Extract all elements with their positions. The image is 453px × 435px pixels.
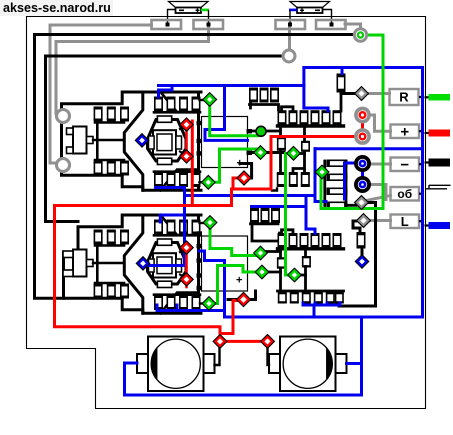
IC board A1 bottom pins [277,172,286,187]
ob terminal node [357,198,366,207]
red wire: left drop [55,206,221,339]
legend green wire [425,96,430,98]
green test point A2 mid [290,271,299,280]
blue wire: H2 jog to bottom riser [199,251,225,317]
component row top-left [94,107,103,122]
blue wire: battery loop [125,317,362,395]
connector label box minus [391,158,420,172]
legend open (white) wire [429,184,451,186]
green test point M1 top [205,95,214,104]
blue wire: battery right tab link [347,362,362,365]
motor (hexagon) [148,243,187,285]
black wire: node C right stub [240,164,252,179]
black wire: ob node into A2 edge [367,203,376,232]
wire to R6 top [340,94,343,111]
L terminal node [359,216,368,225]
red wire: M1 to junction riser [191,121,194,206]
blue wire: y206.5 to A2 trio [252,205,307,208]
relay/solenoid [73,127,87,154]
resistor below L node [357,232,366,249]
capacitor/head box H1 [202,117,248,168]
A1 pin link black y152.5 [248,151,281,154]
black wire: node A loop to M2 bottom (outer) [35,35,355,299]
red wire: + node to A1 riser [271,137,356,190]
capacitor/head box H2 [202,236,248,291]
svg-text:L: L [401,214,409,229]
wire crossing patch green x321 [320,196,323,208]
R terminal node [357,89,366,98]
resistor to R node [337,74,346,93]
minus terminal node lower [356,178,369,191]
wire SP2 plus lead (blue stub) [289,9,297,12]
green wire: H2 crossing [218,266,259,273]
IC board A1 pin bridge [282,107,294,111]
blue wire: M2 bottom bus [157,305,225,311]
mechanism right edge with pins [197,95,200,188]
black wire: resistor to R node [341,93,356,94]
gray wire: SP2 left terminal to node B [288,28,291,50]
green wire: M1 node to H1 crossing [210,104,260,136]
node A (green/black ring by SP2) [354,29,366,41]
battery cell [280,337,336,392]
legend black wire [425,161,430,163]
black wire: M1 bottom node stub [200,181,204,183]
gray wire: L node to L box [369,219,391,222]
red wire: M2 diamonds vertical [185,250,188,277]
guide roller circle top [57,110,70,123]
blue wire: M2 blue diamond feed [147,215,185,266]
red wire: battery link [224,340,264,343]
black wire: node B loop to M2 top (inner) [46,56,284,222]
IC board A2 mid column [304,249,307,257]
blue wire: M1 bottom to junction [156,188,185,223]
gray wire: R node to R box [367,92,390,95]
blue wire: top bus from speaker area [304,68,423,318]
IC board A1 left column [279,126,282,137]
IC board A2 lower bus [278,247,344,250]
black wire: node D stubs [228,298,238,301]
motor mount pentagon [124,92,143,190]
red wire: long left bus [55,189,272,206]
green wire: H1 lower crossing [213,149,220,182]
black wire: M1 top node stub [200,99,206,101]
speaker SP2 [290,2,330,8]
wire crossing patch green x383 [382,142,385,153]
red node C [239,173,249,183]
red wire: M1 diamonds vertical [185,127,188,154]
gray wire: ob node to ob box [367,196,391,201]
green wire: node A to right riser [321,35,383,209]
gray wire: SP1 left terminal to roller 2 [50,25,152,163]
green test point A1 mid [289,149,298,158]
black wire: L node to A2 resistor [353,221,360,232]
green test point A2 left2 [258,268,267,277]
green test point A1 filter [318,168,327,177]
A1 green node stub [297,152,305,155]
component row bottom-left [94,284,103,299]
relay/solenoid [73,250,87,277]
wire SP1 minus lead [168,10,176,25]
terminal strip T4 (SP2 right) [316,20,346,29]
connector label box R [390,89,419,105]
label box ticks to blue rail [419,96,422,98]
red test point M2 upper [182,243,191,252]
blue wire: drop to A2 pin [306,196,315,234]
green test point A2 left1 [256,249,265,258]
filter stack right rail [346,161,356,205]
IC board A2 left column [279,249,282,258]
black wire: H1 right pin to green node [249,151,284,154]
blue wire: A2 pin bus riser [303,303,340,305]
minus terminal node upper [356,157,369,170]
filter stack (ob) [327,160,348,168]
component row bottom-right [154,172,163,187]
blue wire: top bus left arm [302,68,305,86]
blue node M2 motor [139,259,148,268]
A2 pin link black y272 [267,271,281,274]
IC board A1 mid column [303,126,306,141]
terminal strip T1 (SP1 left) [152,20,182,29]
blue wire: bottom long bus y317 [225,316,423,319]
wire SP2 minus lead [323,10,332,25]
green test point A1 left [256,148,265,157]
black link to red riser [272,189,277,191]
green solid node A1 input [256,126,266,136]
connector label box ob [391,187,420,201]
svg-text:+: + [236,275,242,287]
+ terminal node upper [356,108,369,121]
blue wire: horizontal distribution y85.5 [159,84,304,87]
A2 pin link black y251.5 [264,250,281,253]
IC board A1 lower bus [278,124,344,127]
svg-text:+: + [400,124,409,141]
blue wire: riser H1 jog [205,86,248,141]
IC board A2 right outline [339,230,376,306]
red test point M1 upper [182,120,191,129]
roller circles redrawn [57,110,70,123]
IC board A2 top pin row [278,233,287,248]
svg-text:akses-se.narod.ru: akses-se.narod.ru [3,1,111,15]
blue wire: minus nodes vertical [361,166,364,182]
blue wire: riser x315 from bus [314,149,317,202]
node B (gray ring) [283,50,295,62]
A2 pin link black y275 [298,274,306,277]
battery terminal node 1 [215,337,224,346]
blue wire: y201.5 to filter resistor [315,200,326,203]
component row bottom-right [154,295,163,310]
gray wire: SP1 right terminal to roller 1 [56,28,209,116]
title label akses-se.narod.ru [0,0,113,16]
red test point M1 lower [182,152,191,161]
gray wire: SP2 right terminal to node A [345,24,361,29]
mechanism outline [78,215,201,250]
IC board A2 bottom bus [278,290,344,293]
svg-text:R: R [399,90,409,105]
IC board A2 pin bridge [282,230,294,234]
black wire: M2 green node stub [200,302,205,304]
component row top-right [154,97,163,112]
motor spokes [180,249,187,253]
green test point M1 bottom [204,178,213,187]
motor spokes [180,126,187,130]
IC board A2 bottom pins [278,292,287,304]
component row bottom-left [94,161,103,176]
red wire: junction up to node C [233,178,239,189]
wire SP1 plus lead (green stub) [201,9,209,12]
black wire: A2 resistor to blue node [361,248,364,257]
legend red wire [425,132,430,134]
blue wire: drop to A1 resistor [341,68,344,74]
gray wire: minus node to minus box [367,163,391,166]
green test point M2 bottom [205,299,214,308]
legend blue wire [425,224,430,226]
component row top-left [94,230,103,245]
red wire: node D to battery 1 [220,301,239,334]
svg-text:−: − [400,157,409,174]
speaker SP1 [169,2,209,8]
terminal strip T3 (SP2 left) [276,20,306,29]
blue wire: long bus y148.7 [315,147,423,150]
blue wire: y195.5 bus [185,194,316,197]
terminal strip T2 (SP1 right) [194,20,224,29]
black wire: battery node 1 lead [215,346,220,365]
green wire: M2 lower node riser [214,266,218,304]
blue wire: minus node to filter rail [345,163,358,199]
battery cell [148,337,204,392]
IC board A2 top pin trio [250,208,259,223]
board outline border [27,17,426,409]
black wire: battery node 2 lead [268,346,270,365]
connector label box + [391,125,420,139]
gray wire: + node to + box [367,115,391,131]
motor (hexagon) [148,120,187,162]
IC board A1 top pin row [278,110,287,125]
blue node M1 motor [138,136,147,145]
gray wire: minus lower node jog [368,185,387,200]
green wire: M2 top node path [210,227,256,256]
green wire: A1 node to riser down [286,154,291,276]
red test point M2 lower [182,275,191,284]
IC board A1 top pin trio [249,88,258,103]
A1 pin link black y131 [248,130,281,133]
green test point M2 top [206,218,215,227]
battery terminal node 2 [263,337,272,346]
blue wire: drop to M1 top pin [159,86,173,98]
red node D [239,295,249,305]
svg-text:об: об [397,187,412,201]
motor mount pentagon [124,215,143,313]
guide roller circle bottom [57,159,70,172]
red wire: M2 to battery chain [185,279,188,287]
red wire: + nodes vertical [361,117,364,134]
mechanism right edge with pins [197,218,200,311]
mechanism outline [62,92,202,121]
connector label box L [391,215,420,229]
blue wire: A1 branch to pin [304,86,328,112]
black wire: M2 top node stub [200,222,206,224]
filter stack left rail [323,161,326,206]
+ terminal node lower [356,130,369,143]
blue node A2 [358,257,367,266]
component row top-right [154,220,163,235]
